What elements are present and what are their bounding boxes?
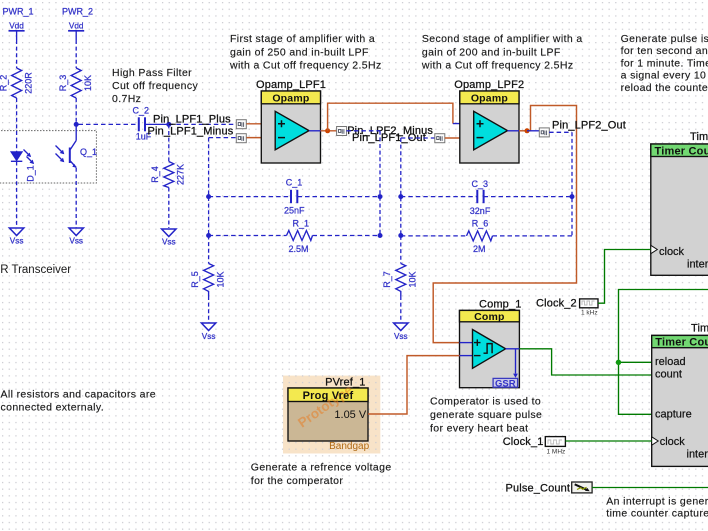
terminal box Pin_LPF1_Minus	[236, 134, 246, 143]
wire node down to R_4 (dashed)	[168, 124, 170, 161]
svg-text:PWR_2: PWR_2	[62, 7, 93, 17]
annotation interrupt	[606, 495, 708, 519]
terminal box Pin_LPF1_Plus	[236, 120, 246, 129]
svg-text:Generate a refrence voltage: Generate a refrence voltage	[251, 461, 392, 473]
wire C_1 row (dashed)	[209, 196, 380, 198]
annotation High Pass Filter	[112, 67, 198, 105]
capacitor C_1	[284, 178, 305, 216]
svg-text:reload the counter: reload the counter	[621, 82, 708, 94]
ground Vss (R_5)	[201, 323, 215, 341]
clock Clock_2	[536, 298, 598, 317]
svg-text:interrupt: interrupt	[687, 449, 708, 461]
svg-text:GSR: GSR	[495, 378, 516, 389]
svg-text:Timer Counter: Timer Counter	[655, 337, 708, 349]
node junction at R_3 bottom	[74, 122, 79, 127]
svg-text:Prog Vref: Prog Vref	[303, 390, 354, 402]
node out1/R row	[378, 233, 383, 238]
svg-text:R_4: R_4	[150, 166, 160, 183]
svg-text:Second stage of amplifier with: Second stage of amplifier with a	[422, 33, 583, 45]
power symbol Vdd (PWR_1)	[9, 21, 25, 40]
clock Clock_1	[503, 436, 566, 455]
wire minus node vertical (dashed)	[208, 138, 210, 236]
svg-text:10K: 10K	[408, 271, 418, 287]
terminal box Pin_LPF1_Out	[337, 127, 347, 136]
svg-text:reload: reload	[655, 356, 686, 368]
svg-text:for 1 minute. Timer: for 1 minute. Timer	[621, 57, 708, 69]
svg-text:generate square pulse: generate square pulse	[430, 409, 542, 421]
component Timer Counter 1	[651, 131, 708, 275]
wire R_1 row (dashed)	[209, 235, 380, 237]
svg-text:Vss: Vss	[10, 237, 24, 246]
node out2/C row	[570, 194, 575, 199]
ground Vss (D_1)	[9, 228, 23, 246]
svg-text:Comp: Comp	[474, 311, 505, 323]
wire opamp2 output	[508, 130, 520, 132]
svg-text:First stage of amplifier with: First stage of amplifier with a	[230, 33, 375, 45]
svg-text:Q_1: Q_1	[80, 147, 97, 157]
component Timer Counter 2	[652, 323, 708, 467]
svg-text:220R: 220R	[24, 72, 34, 94]
svg-text:count: count	[655, 368, 682, 380]
wire output up and over to opamp2 plus (orange)	[328, 103, 453, 131]
svg-text:Vss: Vss	[162, 237, 176, 246]
wire opamp2 output to comparator (orange)	[433, 106, 576, 343]
svg-text:0.7Hz: 0.7Hz	[112, 93, 141, 105]
ground Vss (Q_1)	[69, 228, 83, 246]
interrupt terminal Pulse_Count	[506, 482, 593, 495]
svg-text:10K: 10K	[215, 271, 225, 287]
wire C_3 row (dashed)	[401, 196, 572, 198]
power PWR_2 label	[62, 7, 93, 17]
svg-text:C_1: C_1	[286, 178, 303, 188]
svg-text:R_1: R_1	[293, 218, 310, 228]
wire R_6 row (dashed)	[401, 235, 572, 237]
wire vref to comparator minus (orange)	[368, 356, 460, 414]
wire R_2 to LED (dashed)	[16, 98, 18, 152]
svg-text:32nF: 32nF	[470, 206, 491, 216]
transistor Q_1 (phototransistor)	[56, 141, 98, 168]
wire Clock_1 to timer2 clock (green)	[565, 440, 651, 442]
capacitor C_3	[470, 179, 491, 216]
svg-text:Opamp_LPF2: Opamp_LPF2	[454, 79, 524, 91]
svg-text:Pulse_Count: Pulse_Count	[506, 483, 571, 495]
wire Vdd to R_2 (dashed)	[16, 40, 18, 68]
svg-text:25nF: 25nF	[284, 205, 305, 215]
annotation comparator	[430, 396, 542, 435]
svg-text:gain of 250 and in-built LPF: gain of 250 and in-built LPF	[230, 46, 369, 58]
svg-text:clock: clock	[659, 246, 685, 258]
wire Pulse_Count (green)	[592, 487, 708, 489]
svg-text:An interrupt is generated: An interrupt is generated	[606, 495, 708, 507]
svg-text:Opamp_LPF1: Opamp_LPF1	[256, 79, 326, 91]
svg-text:All resistors and capacitors a: All resistors and capacitors are	[1, 389, 156, 401]
resistor R_6	[467, 219, 493, 254]
node minus1/R row	[206, 233, 211, 238]
comparator block Comp_1	[460, 299, 522, 390]
svg-text:1.05 V: 1.05 V	[334, 409, 366, 421]
IR transceiver dotted box	[0, 131, 96, 183]
node after C_2	[166, 122, 171, 127]
svg-text:for every heart beat: for every heart beat	[430, 423, 528, 435]
op-amp block Opamp_LPF2	[454, 79, 524, 163]
power symbol Vdd (PWR_2)	[68, 21, 84, 40]
svg-text:1 MHz: 1 MHz	[547, 448, 566, 455]
svg-text:227K: 227K	[176, 164, 186, 185]
wire Pin_LPF2_Out to feedback vertical (dashed)	[549, 131, 572, 133]
svg-text:Timer Counter: Timer Counter	[655, 145, 708, 157]
svg-text:Vss: Vss	[202, 332, 216, 341]
wire R_5 to Vss (dashed)	[208, 296, 210, 323]
wire R_7 lead	[400, 236, 402, 264]
ground Vss (R_7)	[394, 323, 408, 341]
wire node to Q_1 collector	[75, 124, 77, 140]
annotation second stage	[421, 33, 583, 71]
svg-text:Pin_LPF1_Minus: Pin_LPF1_Minus	[148, 126, 234, 138]
svg-text:Clock_2: Clock_2	[536, 298, 577, 310]
wire node to C_2 (dashed)	[79, 123, 139, 125]
svg-text:Vdd: Vdd	[69, 21, 84, 30]
svg-text:a signal every 10 s: a signal every 10 s	[621, 70, 708, 82]
wire minus2 to terminal (dashed)	[401, 137, 435, 139]
resistor R_5	[190, 264, 226, 297]
svg-text:Opamp: Opamp	[272, 92, 309, 104]
svg-text:Vss: Vss	[394, 332, 408, 341]
svg-text:Opamp: Opamp	[471, 92, 508, 104]
wire feedback vertical stage2 (dashed)	[570, 132, 572, 236]
svg-text:Pin_LPF2_Out: Pin_LPF2_Out	[552, 120, 626, 132]
wire Q_1 emitter to Vss (dashed)	[75, 168, 77, 228]
svg-text:for the comperator: for the comperator	[251, 475, 344, 487]
wire comp output to count (green)	[519, 349, 651, 375]
node minus2/R row	[398, 233, 403, 238]
annotation generate reference	[251, 461, 392, 487]
svg-text:with a Cut off frequency 2.5Hz: with a Cut off frequency 2.5Hz	[229, 60, 382, 72]
wire feedback vertical stage1 (dashed)	[379, 131, 381, 236]
svg-text:for ten second and: for ten second and	[621, 45, 708, 57]
svg-text:High Pass Filter: High Pass Filter	[112, 67, 192, 79]
wire C_2 to node	[145, 123, 169, 125]
svg-text:C_3: C_3	[472, 179, 489, 189]
node out1/C row	[378, 194, 383, 199]
svg-text:R_3: R_3	[58, 75, 68, 92]
junction opamp1 output	[325, 128, 330, 133]
svg-text:R_2: R_2	[0, 75, 9, 92]
resistor R_7	[382, 264, 418, 297]
wire Clock_2 to timer1 clock (green)	[598, 250, 651, 304]
power PWR_1 label	[3, 7, 34, 17]
wire node to Pin_LPF1_Plus terminal	[169, 123, 237, 125]
wire R_7 to Vss (dashed)	[400, 296, 402, 323]
wire minus2 terminal to opamp2 (orange)	[445, 137, 470, 139]
svg-text:Vss: Vss	[69, 237, 83, 246]
wire plus terminal to opamp1 (orange)	[247, 123, 273, 125]
svg-text:PWR_1: PWR_1	[3, 7, 34, 17]
svg-text:Comperator is used to: Comperator is used to	[430, 396, 541, 408]
annotation All resistors	[1, 389, 156, 414]
annotation generate pulse (right edge)	[621, 33, 708, 94]
wire R_4 to Vss (dashed)	[168, 188, 170, 229]
svg-text:10K: 10K	[83, 75, 93, 91]
ground Vss (R_4)	[162, 229, 176, 246]
svg-text:Cut off frequency: Cut off frequency	[112, 80, 198, 92]
node minus2/C row	[398, 194, 403, 199]
svg-text:Clock_1: Clock_1	[503, 436, 544, 448]
svg-text:Timer_2: Timer_2	[691, 323, 708, 335]
svg-text:D_1: D_1	[26, 165, 36, 182]
terminal box Pin_LPF2_Out	[539, 128, 549, 137]
wire Vdd to R_3 (dashed)	[75, 40, 77, 68]
svg-text:capture: capture	[655, 408, 692, 420]
svg-text:clock: clock	[660, 436, 686, 448]
wire R_3 to node (dashed)	[75, 98, 77, 124]
junction reload net	[616, 360, 621, 365]
wire interrupt net to reload and capture (green)	[619, 290, 708, 415]
svg-text:R_5: R_5	[190, 271, 200, 288]
svg-text:Pin_LPF1_Plus: Pin_LPF1_Plus	[153, 113, 231, 125]
wire junction to Pin_LPF2_Out terminal	[527, 130, 540, 132]
wire minus terminal to opamp1 (orange)	[247, 137, 273, 139]
svg-text:Bandgap: Bandgap	[329, 441, 369, 452]
annotation first stage	[229, 33, 382, 71]
svg-text:with a Cut off frequency 2.5Hz: with a Cut off frequency 2.5Hz	[421, 60, 574, 72]
wire opamp1 output	[309, 130, 321, 132]
resistor R_2	[0, 68, 34, 98]
svg-text:R_6: R_6	[472, 219, 489, 229]
wire Pin_LPF1_Minus to minus node (dashed)	[209, 137, 237, 139]
svg-text:Pin_LPF1_Out: Pin_LPF1_Out	[352, 132, 426, 144]
op-amp block Opamp_LPF1	[256, 79, 326, 163]
svg-text:Generate pulse is s: Generate pulse is s	[621, 33, 708, 45]
wire R_5 lead	[208, 236, 210, 264]
node minus1/C row	[206, 194, 211, 199]
svg-text:Comp_1: Comp_1	[479, 299, 521, 311]
wire minus2 vertical (dashed)	[400, 138, 402, 236]
wire Pin_LPF1_Out to feedback vertical (dashed)	[346, 130, 380, 132]
svg-text:gain of 200 and in-built LPF: gain of 200 and in-built LPF	[422, 46, 561, 58]
terminal box Pin_LPF2_Minus	[435, 134, 445, 143]
svg-text:connected externaly.: connected externaly.	[1, 402, 105, 414]
svg-text:Timer_1: Timer_1	[690, 131, 708, 143]
svg-text:interrupt: interrupt	[687, 259, 708, 271]
svg-text:time counter captures: time counter captures	[606, 507, 708, 519]
vref block PVref_1	[288, 376, 370, 452]
svg-text:1 kHz: 1 kHz	[581, 309, 598, 316]
PVref halo	[283, 376, 380, 454]
svg-text:C_2: C_2	[133, 106, 150, 116]
svg-text:2M: 2M	[473, 244, 486, 254]
resistor R_1	[287, 218, 313, 254]
junction opamp2 output	[525, 128, 530, 133]
svg-text:2.5M: 2.5M	[289, 244, 309, 254]
resistor R_3	[58, 68, 93, 98]
svg-text:Vdd: Vdd	[9, 21, 24, 30]
svg-text:R_7: R_7	[382, 271, 392, 288]
resistor R_4	[150, 162, 186, 188]
capacitor C_2	[133, 106, 152, 142]
LED D_1	[11, 150, 36, 182]
wire LED to Vss (dashed)	[16, 162, 18, 228]
svg-text:IR Transceiver: IR Transceiver	[0, 264, 71, 276]
